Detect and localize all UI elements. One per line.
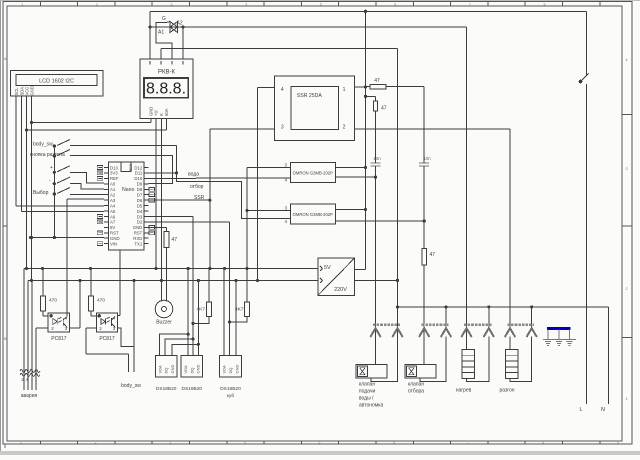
svg-text:D13: D13 — [110, 165, 118, 170]
valve Y2 — [405, 364, 436, 378]
svg-text:B: B — [4, 336, 7, 341]
wire sensor3 DQ — [229, 222, 231, 356]
wire into valve — [375, 337, 377, 365]
svg-text:1: 1 — [343, 87, 346, 93]
svg-text:SCL: SCL — [14, 87, 19, 96]
svg-text:D2: D2 — [137, 220, 143, 225]
junction — [364, 10, 367, 13]
svg-text:VDA: VDA — [157, 365, 162, 374]
svg-text:A: A — [4, 56, 7, 61]
svg-text:клапан: клапан — [359, 382, 375, 388]
svg-text:A1: A1 — [110, 187, 116, 192]
wire PSU 220V L in — [355, 258, 366, 270]
svg-text:8: 8 — [544, 2, 546, 6]
svg-text:OMRON G3MB-202P: OMRON G3MB-202P — [293, 170, 333, 175]
svg-text:47: 47 — [374, 78, 380, 84]
label body_sw connector — [121, 383, 141, 389]
label DS18B20 — [182, 386, 203, 392]
label кнопка разгона — [30, 152, 65, 158]
svg-text:4: 4 — [281, 87, 284, 93]
wire PC817-2 pin2 to body_sw stub — [86, 328, 129, 372]
svg-text:470: 470 — [97, 298, 105, 304]
svg-text:авария: авария — [21, 393, 38, 399]
wire body_sw to D11 node — [70, 145, 177, 173]
svg-text:RXD: RXD — [133, 236, 142, 241]
temperature sensor DS18B20 #2 — [181, 356, 203, 377]
svg-text:2: 2 — [99, 326, 102, 331]
wire sensor1 GND — [172, 344, 198, 355]
svg-text:3: 3 — [113, 326, 116, 331]
wire — [375, 111, 377, 162]
label A2 — [177, 21, 183, 27]
label Выбор — [33, 190, 49, 196]
wire plus to A0 — [70, 172, 104, 183]
wire to PKB pin1 — [149, 27, 151, 59]
wire PC817-1 pin3 to gnd — [70, 281, 80, 329]
capacitor C1 10n — [371, 156, 382, 166]
svg-text:3: 3 — [284, 163, 287, 168]
svg-text:DQ: DQ — [228, 368, 233, 374]
svg-text:VIN: VIN — [110, 241, 117, 246]
svg-text:RST: RST — [110, 231, 119, 236]
valve Y1 — [356, 364, 387, 378]
svg-text:A4: A4 — [110, 203, 116, 208]
wire PKB GND down — [150, 119, 152, 123]
svg-text:G: G — [162, 16, 166, 22]
svg-text:1: 1 — [625, 396, 628, 401]
label - — [49, 178, 51, 184]
wire relay2 out bottom — [335, 220, 424, 222]
svg-text:47: 47 — [430, 252, 436, 258]
svg-text:5V: 5V — [324, 265, 331, 271]
node L — [579, 407, 582, 413]
svg-text:+U: +U — [154, 111, 159, 116]
svg-text:D12: D12 — [134, 165, 142, 170]
svg-text:Выбор: Выбор — [33, 190, 49, 196]
svg-text:+: + — [50, 165, 53, 171]
wire minus to A1 — [70, 184, 104, 190]
wire heater in — [466, 337, 468, 350]
wire A2 to PKB pin4 — [182, 27, 184, 59]
wire relay supply riser — [245, 168, 290, 302]
svg-text:3: 3 — [171, 2, 173, 6]
label + — [50, 165, 53, 171]
svg-text:РКВ-К: РКВ-К — [158, 70, 175, 76]
svg-text:нагрев: нагрев — [456, 388, 472, 394]
svg-text:клапан: клапан — [408, 382, 424, 388]
svg-text:RST: RST — [134, 231, 143, 236]
wire SSR pin4 to gnd bus — [256, 87, 274, 282]
temperature sensor DS18B20 #3 — [220, 356, 242, 377]
svg-text:GND: GND — [196, 365, 201, 374]
wire 470 to pin1 — [91, 311, 96, 316]
svg-text:OMRON G3MB-202P: OMRON G3MB-202P — [293, 212, 333, 217]
wire relay1 out bottom — [335, 176, 375, 178]
resistor R8 4K7 — [235, 302, 250, 317]
svg-text:body_sw: body_sw — [121, 383, 141, 389]
svg-text:кнопка разгона: кнопка разгона — [30, 152, 65, 158]
wire to klapan otbora — [423, 166, 426, 364]
svg-text:GND: GND — [110, 236, 120, 241]
svg-text:DQ: DQ — [189, 368, 194, 374]
svg-text:3: 3 — [625, 166, 628, 171]
wire SSR control riser — [208, 129, 274, 270]
ground symbol 2 — [556, 341, 562, 345]
relay K2 OMRON G3MB-202P — [284, 204, 335, 224]
connector X3 nagrev — [461, 325, 494, 337]
wire PKB +U to 5V bus — [154, 119, 157, 270]
svg-text:8: 8 — [542, 441, 544, 445]
wire gnd rail to PKB — [32, 122, 152, 124]
label body_sw — [33, 142, 53, 148]
protective earth bar — [547, 327, 571, 330]
switch body_sw — [53, 140, 70, 148]
capacitor C2 10n — [419, 87, 431, 166]
svg-text:вода: вода — [188, 172, 199, 178]
wire 4K7 to DQ — [191, 317, 208, 325]
wire PC817-2 pin3 — [118, 328, 135, 346]
wire gate bracket — [156, 23, 172, 60]
label DS18B20 — [220, 386, 241, 399]
svg-text:USB: USB — [128, 164, 132, 172]
ground symbol 1 — [545, 341, 551, 345]
switch кнопка разгона — [53, 150, 70, 158]
wire gnd to nano — [29, 236, 104, 239]
node N — [601, 407, 605, 413]
wire PKB K to gnd bus — [160, 119, 163, 282]
net label voda — [188, 172, 199, 178]
svg-text:4: 4 — [625, 57, 628, 62]
resistor R6 47 — [164, 231, 177, 247]
label klapan otbora — [408, 382, 424, 395]
switch Выбор — [53, 188, 70, 196]
connector X2 klapan otbora — [419, 325, 451, 337]
svg-text:отбор: отбор — [190, 184, 204, 190]
earth wires — [543, 330, 576, 340]
svg-text:D9: D9 — [137, 182, 143, 187]
wire L down to terminal — [585, 84, 587, 404]
heater E1 нагрев — [462, 349, 475, 378]
svg-text:A7: A7 — [110, 220, 116, 225]
svg-text:A1: A1 — [158, 30, 164, 36]
svg-text:470: 470 — [49, 298, 57, 304]
LCD pins SCL SDA VCC GND — [14, 86, 35, 95]
svg-text:3: 3 — [65, 326, 68, 331]
svg-text:N: N — [601, 407, 605, 413]
wire main 220V riser — [364, 11, 367, 269]
svg-text:6: 6 — [393, 441, 395, 445]
svg-text:3: 3 — [169, 441, 171, 445]
svg-text:PC817: PC817 — [99, 336, 115, 342]
wire — [585, 11, 587, 75]
solid state relay U2 SSR 25DA — [274, 76, 354, 141]
wire SDA to A5 — [22, 96, 105, 212]
svg-text:L: L — [579, 407, 582, 413]
svg-text:2: 2 — [625, 286, 628, 291]
wire N bus — [398, 305, 609, 308]
svg-text:4: 4 — [245, 2, 247, 6]
svg-text:D5: D5 — [137, 203, 143, 208]
connector avaria wires — [20, 269, 40, 391]
resistor R2 47 vertical — [366, 96, 387, 111]
wire valve return — [420, 337, 446, 382]
wire L top 220V — [150, 10, 586, 12]
wire VCC down to 5V bus — [25, 96, 28, 270]
svg-text:D6: D6 — [137, 198, 143, 203]
resistor R1 47 — [366, 78, 425, 89]
svg-text:Nano: Nano — [122, 187, 135, 193]
wire A3 to PC817-1 pin4 — [67, 199, 104, 316]
svg-text:D11: D11 — [135, 171, 143, 176]
svg-text:1: 1 — [21, 2, 23, 6]
svg-text:REF: REF — [110, 176, 119, 181]
wire knopka to D9 — [70, 156, 173, 184]
svg-text:4: 4 — [244, 441, 246, 445]
svg-text:5V: 5V — [110, 225, 115, 230]
optocoupler U3 PC817 — [48, 313, 69, 332]
svg-text:220V: 220V — [334, 287, 347, 293]
wire SSR pin2 to connector razgon — [355, 129, 510, 328]
wire DQ sensors — [191, 216, 194, 355]
svg-text:A0: A0 — [110, 182, 116, 187]
wire GND down to gnd bus — [30, 96, 33, 282]
junction A1 — [148, 25, 151, 28]
net label SSR — [194, 195, 205, 201]
wire D2 to DQ kub — [149, 221, 230, 223]
label DS18B20 — [156, 386, 177, 392]
wire 470 to pin1 — [43, 311, 48, 316]
wire switch common bus — [53, 146, 55, 238]
svg-text:подачи: подачи — [359, 389, 376, 395]
svg-text:4: 4 — [113, 315, 116, 320]
svg-text:DS18B20: DS18B20 — [182, 386, 203, 392]
wire N down — [607, 307, 609, 404]
wire buzzer left to gnd — [161, 281, 163, 302]
svg-text:A3: A3 — [110, 198, 116, 203]
svg-text:GND: GND — [29, 86, 34, 95]
wire — [531, 307, 533, 329]
wire 5V bus — [24, 267, 318, 270]
svg-text:LCD 1602 I2C: LCD 1602 I2C — [39, 79, 74, 85]
svg-text:SSR: SSR — [194, 195, 205, 201]
wire PC817-1 pin2 to avaria — [36, 328, 48, 390]
svg-text:-: - — [49, 178, 51, 184]
wire sensor1 VDD — [160, 334, 189, 356]
wire SCL to A4 — [16, 96, 104, 206]
svg-text:DS18B20: DS18B20 — [220, 386, 241, 392]
label PC817 — [99, 336, 115, 342]
switch S1 mains — [579, 74, 589, 84]
svg-text:7: 7 — [468, 441, 470, 445]
resistor R4 470 — [40, 269, 57, 312]
wire to klapan podachi — [374, 166, 377, 364]
wire sensor1 DQ — [165, 339, 193, 356]
svg-text:50A: 50A — [164, 108, 169, 116]
wire gnd to body_sw stub — [133, 281, 135, 372]
wire D10 voda to relay1 pin4 — [149, 177, 291, 179]
optocoupler U4 PC817 — [96, 313, 117, 332]
wire D11 — [149, 171, 179, 174]
svg-text:D7: D7 — [137, 193, 143, 198]
svg-text:DS18B20: DS18B20 — [156, 386, 177, 392]
svg-text:3: 3 — [284, 206, 287, 211]
svg-text:D4: D4 — [137, 209, 143, 214]
label avaria — [21, 393, 38, 399]
resistor R5 470 — [88, 269, 105, 312]
svg-text:2: 2 — [96, 2, 98, 6]
svg-text:D3: D3 — [137, 214, 143, 219]
wire into valve — [423, 337, 425, 365]
buzzer BZ1 — [155, 300, 173, 325]
svg-text:7: 7 — [469, 2, 471, 6]
wire R47 to buzzer — [165, 248, 167, 302]
wire — [488, 307, 490, 329]
svg-text:2: 2 — [343, 125, 346, 131]
wire — [445, 307, 447, 329]
svg-text:6: 6 — [394, 2, 396, 6]
svg-text:3V3: 3V3 — [110, 171, 118, 176]
svg-text:3: 3 — [281, 125, 284, 131]
label A1 — [158, 30, 164, 36]
wire — [149, 11, 151, 27]
labels 2 4 — [21, 377, 29, 382]
svg-text:GND: GND — [234, 365, 239, 374]
svg-text:4: 4 — [284, 219, 287, 224]
wire PC817-2 pin4 up — [118, 250, 120, 316]
connector X1 klapan podachi — [370, 325, 402, 337]
wire PSU 220V N in — [355, 279, 400, 282]
svg-text:VDA: VDA — [222, 365, 227, 374]
svg-text:Buzzer: Buzzer — [156, 320, 172, 326]
triac VS1 — [150, 22, 183, 33]
svg-text:воды /: воды / — [359, 396, 374, 402]
connector X4 razgon — [505, 325, 537, 337]
switch - — [53, 177, 70, 185]
svg-text:9: 9 — [617, 441, 619, 445]
svg-text:A5: A5 — [110, 209, 116, 214]
wire sensor3 GND — [235, 281, 237, 356]
svg-text:5: 5 — [320, 2, 322, 6]
svg-text:PC817: PC817 — [51, 336, 67, 342]
svg-text:D8: D8 — [137, 187, 143, 192]
svg-text:2: 2 — [51, 326, 54, 331]
wire relay2 pin3 — [247, 210, 290, 212]
power supply 5V 220V — [318, 258, 355, 295]
label нагрев — [456, 388, 472, 394]
label PC817 — [51, 336, 67, 342]
wire relay2 out top — [335, 209, 365, 211]
net label otbor — [190, 184, 204, 190]
svg-text:разгон: разгон — [499, 388, 514, 394]
svg-text:47: 47 — [172, 237, 178, 243]
wire vybor to A2 — [70, 193, 104, 195]
pin labels PKB bottom GND +U K 50A — [149, 107, 170, 116]
wire VDD sensors — [187, 269, 190, 356]
svg-text:A6: A6 — [110, 214, 116, 219]
wire relay1 out top — [335, 167, 365, 169]
wire GND bus — [28, 279, 318, 282]
svg-text:GND: GND — [133, 225, 143, 230]
wire otbor to relay2 pin4 — [177, 173, 291, 219]
label G — [162, 16, 166, 22]
svg-text:A2: A2 — [110, 193, 116, 198]
svg-text:5: 5 — [318, 441, 320, 445]
wire N riser from gate — [396, 48, 399, 381]
wire GND sensors — [197, 281, 200, 356]
wire D6 SSR net — [154, 199, 210, 201]
wire valve return — [371, 337, 398, 382]
wire SSR pin1 — [355, 85, 367, 88]
label klapan podachi — [359, 382, 384, 409]
ammeter module PKB-K — [140, 59, 193, 119]
heater E2 разгон — [505, 349, 518, 378]
microcontroller U1 Arduino Nano — [97, 162, 154, 250]
svg-text:8.8.8.: 8.8.8. — [146, 81, 186, 98]
svg-text:куб: куб — [227, 393, 235, 399]
svg-text:4K7: 4K7 — [196, 307, 205, 313]
svg-text:47: 47 — [381, 106, 387, 112]
wire heater in — [509, 337, 511, 350]
wire A2 to heater feed — [183, 26, 467, 28]
ground symbol 3 — [567, 341, 573, 345]
svg-text:DQ: DQ — [164, 368, 169, 374]
svg-text:10n: 10n — [373, 156, 381, 161]
wire 4K7 to DQ kub — [228, 317, 247, 324]
wire heater return — [510, 337, 532, 382]
svg-text:TX1: TX1 — [134, 241, 142, 246]
LCD 1602 I2C display — [11, 71, 104, 97]
wire heater return — [467, 337, 489, 382]
temperature sensor DS18B20 #1 — [155, 356, 177, 377]
svg-text:GND: GND — [170, 365, 175, 374]
svg-text:4: 4 — [65, 315, 68, 320]
resistor R7 4K7 — [196, 269, 211, 317]
svg-text:D10: D10 — [134, 176, 142, 181]
wire heater feed — [466, 27, 468, 349]
svg-text:A2: A2 — [177, 21, 183, 27]
relay K1 OMRON G3MB-202P — [284, 162, 335, 182]
label разгон — [499, 388, 514, 394]
wire sensor3 VDD — [223, 269, 225, 356]
svg-text:VDA: VDA — [183, 365, 188, 374]
junction A2 — [181, 25, 184, 28]
svg-text:2: 2 — [95, 441, 97, 445]
svg-text:SSR 25DA: SSR 25DA — [297, 93, 323, 99]
wire PKB 50A to vcc rail — [27, 119, 167, 130]
resistor R3 47 vertical right — [422, 248, 435, 265]
svg-text:1: 1 — [20, 441, 22, 445]
wire PKB pin2 to N side — [161, 48, 398, 59]
svg-text:body_sw: body_sw — [33, 142, 53, 148]
wire D3 to DQ sensors — [149, 215, 194, 217]
svg-text:автономка: автономка — [359, 403, 384, 409]
wire R47 top — [149, 228, 167, 232]
svg-text:отбора: отбора — [408, 389, 424, 395]
switch + — [53, 166, 70, 174]
